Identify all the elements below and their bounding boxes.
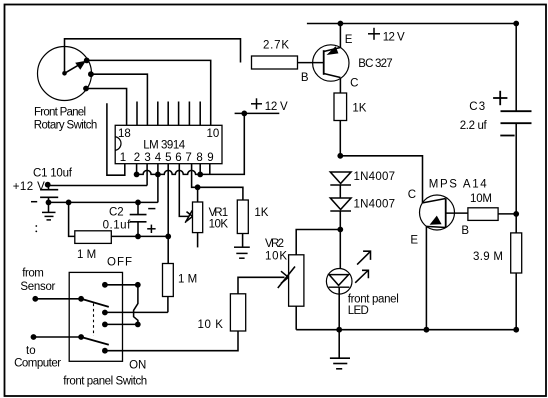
wire sensor input to pole 1 [35, 298, 81, 300]
svg-text:10: 10 [207, 128, 220, 140]
junction pin 4 / bus [155, 172, 161, 178]
pin 14 stub [167, 102, 169, 126]
diode D2 1N4007 [330, 198, 351, 211]
resistor R5 1K [334, 93, 347, 121]
node contact mid 1 [102, 310, 108, 316]
switch SW2 box [69, 272, 122, 361]
ground under LED [330, 330, 350, 369]
junction diode top node [337, 153, 343, 159]
switch lever 2 [81, 337, 109, 345]
capacitor C2 [130, 202, 147, 236]
pin labels 1-9 [120, 152, 214, 164]
svg-text:1 M: 1 M [178, 274, 197, 286]
LED emission arrows [355, 251, 370, 283]
dashed gang line [93, 304, 95, 337]
label: + 12 V (top) [368, 28, 380, 40]
wire rotary contact 3 to IC pin 18 [86, 89, 127, 126]
svg-text:C: C [350, 77, 358, 89]
svg-text:Front Panel: Front Panel [34, 107, 86, 119]
svg-text:6: 6 [175, 152, 181, 164]
wire IC pin 7 lead to VR1 top junction [192, 164, 198, 187]
svg-text:C: C [408, 189, 416, 201]
svg-text:5: 5 [165, 152, 171, 164]
rotary switch SW1 body [38, 47, 92, 101]
svg-text:E: E [345, 34, 353, 46]
rotary switch wiper arrow [62, 61, 86, 76]
svg-text:10K: 10K [209, 218, 229, 230]
wire 10K bottom to switch contact [105, 331, 238, 351]
wire +12V top rail [307, 23, 516, 25]
label: C1 minus sign [31, 201, 37, 203]
stray dot marks [35, 225, 37, 232]
wire 1M right to pin 5 line [111, 235, 168, 237]
wire ground rail drop to resistor 1M left [69, 202, 75, 236]
label: to Computer [14, 345, 61, 370]
svg-text:VR2: VR2 [265, 238, 284, 250]
svg-text:Rotary Switch: Rotary Switch [34, 120, 98, 132]
junction BC327 emitter / top rail [338, 21, 344, 27]
node link bottom [135, 322, 141, 328]
junction bus riser / +12V stub [241, 111, 247, 117]
wire 1K to diode junction [339, 121, 341, 156]
svg-text:Sensor: Sensor [20, 281, 55, 293]
svg-text:12 V: 12 V [383, 32, 405, 44]
diode D1 1N4007 [330, 172, 351, 185]
wire IC pin 4 lead to ground rail [157, 164, 159, 202]
svg-text:0.1uf: 0.1uf [103, 220, 131, 232]
svg-text:10M: 10M [470, 193, 492, 205]
junction 3.9M / bottom rail [513, 327, 519, 333]
node sensor terminal [32, 296, 38, 302]
svg-text:1 M: 1 M [77, 249, 96, 261]
wire VR1 junction to resistor 1K top [198, 187, 243, 200]
resistor R1 1M horizontal [75, 231, 112, 244]
wire +12V rail to IC pin 3 [48, 185, 147, 187]
svg-text:C3: C3 [469, 101, 485, 113]
wire D2 to LED node [339, 211, 341, 230]
svg-text:12 V: 12 V [265, 101, 288, 113]
junction pin 8 / bus [197, 172, 203, 178]
node contact lower [102, 348, 108, 354]
svg-text:1N4007: 1N4007 [354, 198, 396, 210]
svg-text:+12 V: +12 V [13, 181, 45, 193]
wire contact mid 1 to link [105, 311, 168, 313]
resistor R4 2.7K [252, 56, 298, 69]
svg-text:10K: 10K [265, 251, 287, 263]
svg-text:C1 10uf: C1 10uf [33, 168, 73, 180]
svg-text:C2: C2 [109, 206, 124, 218]
wire bottom rail [296, 329, 516, 331]
wire rotary contact 2 to IC pin 16 [91, 74, 147, 125]
wire diode node to MPS A14 collector [340, 156, 422, 203]
svg-text:9: 9 [207, 152, 213, 164]
resistor R3 1K [237, 200, 248, 234]
node: rotary contact 3 [83, 86, 89, 92]
wire 2.7K to BC327 base [298, 62, 324, 64]
svg-text:B: B [301, 72, 309, 84]
svg-text:B: B [461, 225, 469, 237]
label: C3 plus sign [493, 91, 507, 105]
node link top [135, 282, 141, 288]
node pole 1 [78, 296, 84, 302]
junction +12V / C1 top [45, 182, 51, 188]
node computer terminal [31, 334, 37, 340]
pin 13 stub [178, 102, 180, 126]
node: rotary contact 1 [84, 58, 90, 64]
label: C3 minus sign [500, 135, 514, 137]
junction pin 2 / bus [134, 172, 140, 178]
potentiometer VR1 10K [185, 187, 203, 247]
+12V supply stub near IC [235, 112, 280, 114]
junction VR1 top / pin 7 wire [195, 184, 201, 190]
wire 10M to right rail [498, 213, 516, 215]
svg-text:1: 1 [120, 152, 126, 164]
svg-text:Computer: Computer [14, 357, 61, 369]
capacitor C3 2.2uf with leads [501, 24, 532, 214]
svg-text:1N4007: 1N4007 [354, 171, 396, 183]
svg-text:BC 327: BC 327 [358, 58, 393, 70]
label: front panel LED [348, 293, 399, 317]
junction C3 / top rail [513, 21, 519, 27]
capacitor C1 [40, 186, 58, 203]
svg-text:3.9 M: 3.9 M [473, 251, 503, 263]
svg-text:8: 8 [196, 152, 202, 164]
junction ground rail / C2 top [135, 200, 141, 206]
svg-text:7: 7 [185, 152, 191, 164]
wire rotary contact 1 to IC pin 10 [87, 60, 211, 125]
wire contact mid 2 to link [105, 323, 138, 325]
junction ground rail / 1M drop [66, 200, 72, 206]
LED D3 front panel [326, 230, 352, 330]
svg-text:2.7K: 2.7K [263, 40, 289, 52]
svg-text:to: to [26, 345, 36, 357]
svg-text:MPS A14: MPS A14 [429, 179, 488, 191]
svg-text:E: E [410, 235, 418, 247]
wire ground rail C1 to IC pin 4 [49, 201, 158, 203]
svg-text:from: from [22, 268, 44, 280]
pin 15 stub [157, 102, 159, 126]
transistor Q2 MPS A14 (NPN darlington) [420, 195, 468, 330]
wire IC pin 9 lead [209, 164, 211, 174]
label: C2 minus sign [148, 208, 155, 210]
svg-text:LM 3914: LM 3914 [143, 140, 186, 152]
wire LED node to VR2 top [296, 230, 340, 255]
wire IC pin 5 lead down [167, 164, 169, 236]
junction C2 bottom / wire [135, 234, 141, 240]
pin 11 stub [199, 102, 201, 126]
resistor R8 3.9M with leads [511, 214, 522, 330]
node pole 2 [78, 334, 84, 340]
label: from Sensor [20, 268, 55, 293]
svg-text:2.2 uf: 2.2 uf [460, 120, 488, 132]
wire contact upper to link [105, 284, 138, 286]
wire IC pin 3 lead to +12V rail [146, 164, 148, 186]
wire IC pin 6 lead to VR1 wiper [179, 164, 189, 216]
ground under C1 [42, 202, 56, 220]
svg-text:front panel Switch: front panel Switch [63, 376, 147, 388]
switch lever 1 [81, 299, 109, 307]
transistor Q1 BC 327 (PNP) [313, 24, 349, 94]
wire computer output to pole 2 [34, 336, 82, 338]
junction C1 bottom / ground rail [46, 200, 52, 206]
ground under 1K [234, 234, 250, 259]
label: + 12V (near IC) [251, 98, 262, 109]
wire D1 to D2 [339, 185, 341, 198]
wire curvy link [134, 285, 138, 325]
pin 17 stub [136, 102, 138, 126]
IC U1 LM 3914 body with notch [115, 125, 222, 163]
svg-text:4: 4 [155, 152, 162, 164]
svg-text:2: 2 [134, 152, 140, 164]
node: rotary contact 2 [88, 71, 94, 77]
wire IC pin 1 stub [107, 103, 125, 175]
svg-text:18: 18 [118, 128, 131, 140]
wire IC pin 2 lead [136, 164, 138, 174]
node contact upper [102, 282, 108, 288]
wire IC pin 8 lead [199, 164, 201, 174]
svg-text:10 K: 10 K [198, 319, 224, 331]
potentiometer VR2 10K [278, 255, 304, 330]
wire rotary wiper to resistor 2.7K [65, 39, 241, 74]
junction 10M / right rail [513, 211, 519, 217]
label: C2 plus sign [147, 225, 155, 233]
resistor R6 10K [230, 294, 245, 331]
pin 12 stub [188, 102, 190, 126]
junction MPS emitter / bottom rail [424, 327, 430, 333]
node contact mid 2 [102, 322, 108, 328]
junction pin 5 / 1M wire [165, 234, 171, 240]
svg-text:front panel: front panel [348, 293, 399, 305]
wire VR2 wiper from 10K top [238, 277, 285, 294]
resistor R2 1M vertical with leads [163, 236, 174, 312]
svg-text:1K: 1K [352, 103, 366, 115]
junction LED / bottom rail [336, 327, 342, 333]
wire wavy bus pins 2-4-8-9 to +12V stub [137, 113, 245, 174]
svg-text:OFF: OFF [107, 257, 132, 269]
junction LED node [337, 227, 343, 233]
svg-text:ON: ON [129, 360, 146, 372]
svg-text:1K: 1K [254, 207, 268, 219]
label: Front Panel Rotary Switch [34, 107, 98, 132]
resistor R7 10M [468, 208, 498, 221]
svg-text:LED: LED [348, 305, 369, 317]
svg-text:VR 1: VR 1 [209, 207, 229, 219]
svg-text:3: 3 [144, 152, 150, 164]
